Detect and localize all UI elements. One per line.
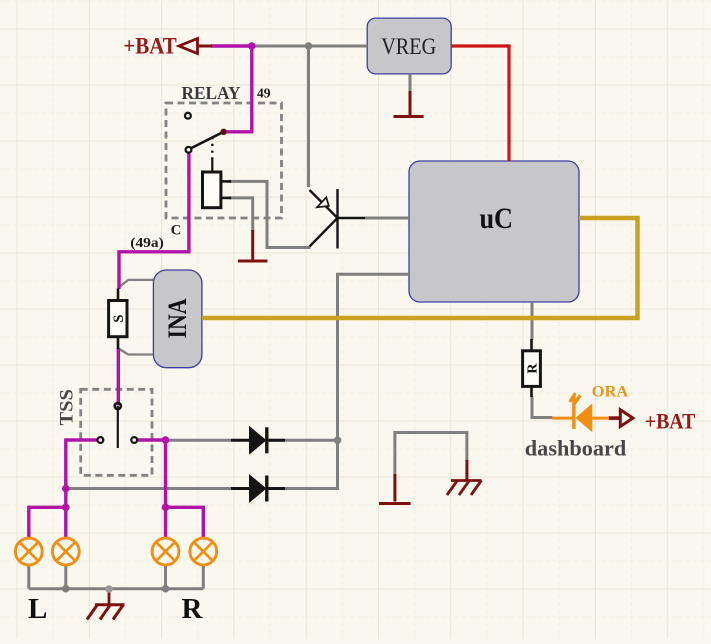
svg-text:R: R bbox=[526, 363, 541, 374]
svg-text:dashboard: dashboard bbox=[525, 436, 627, 461]
svg-text:+BAT: +BAT bbox=[123, 34, 177, 59]
svg-text:+BAT: +BAT bbox=[645, 409, 696, 434]
svg-text:uC: uC bbox=[479, 202, 513, 235]
svg-text:TSS: TSS bbox=[57, 389, 77, 426]
svg-text:ORA: ORA bbox=[592, 383, 629, 400]
svg-text:(49a): (49a) bbox=[130, 235, 164, 250]
svg-text:VREG: VREG bbox=[381, 34, 436, 60]
svg-text:R: R bbox=[182, 593, 204, 625]
svg-text:49: 49 bbox=[257, 86, 271, 101]
svg-text:S: S bbox=[111, 315, 127, 323]
svg-text:C: C bbox=[171, 223, 181, 239]
svg-text:L: L bbox=[28, 593, 47, 625]
svg-text:RELAY: RELAY bbox=[182, 83, 241, 103]
svg-text:INA: INA bbox=[163, 298, 192, 338]
